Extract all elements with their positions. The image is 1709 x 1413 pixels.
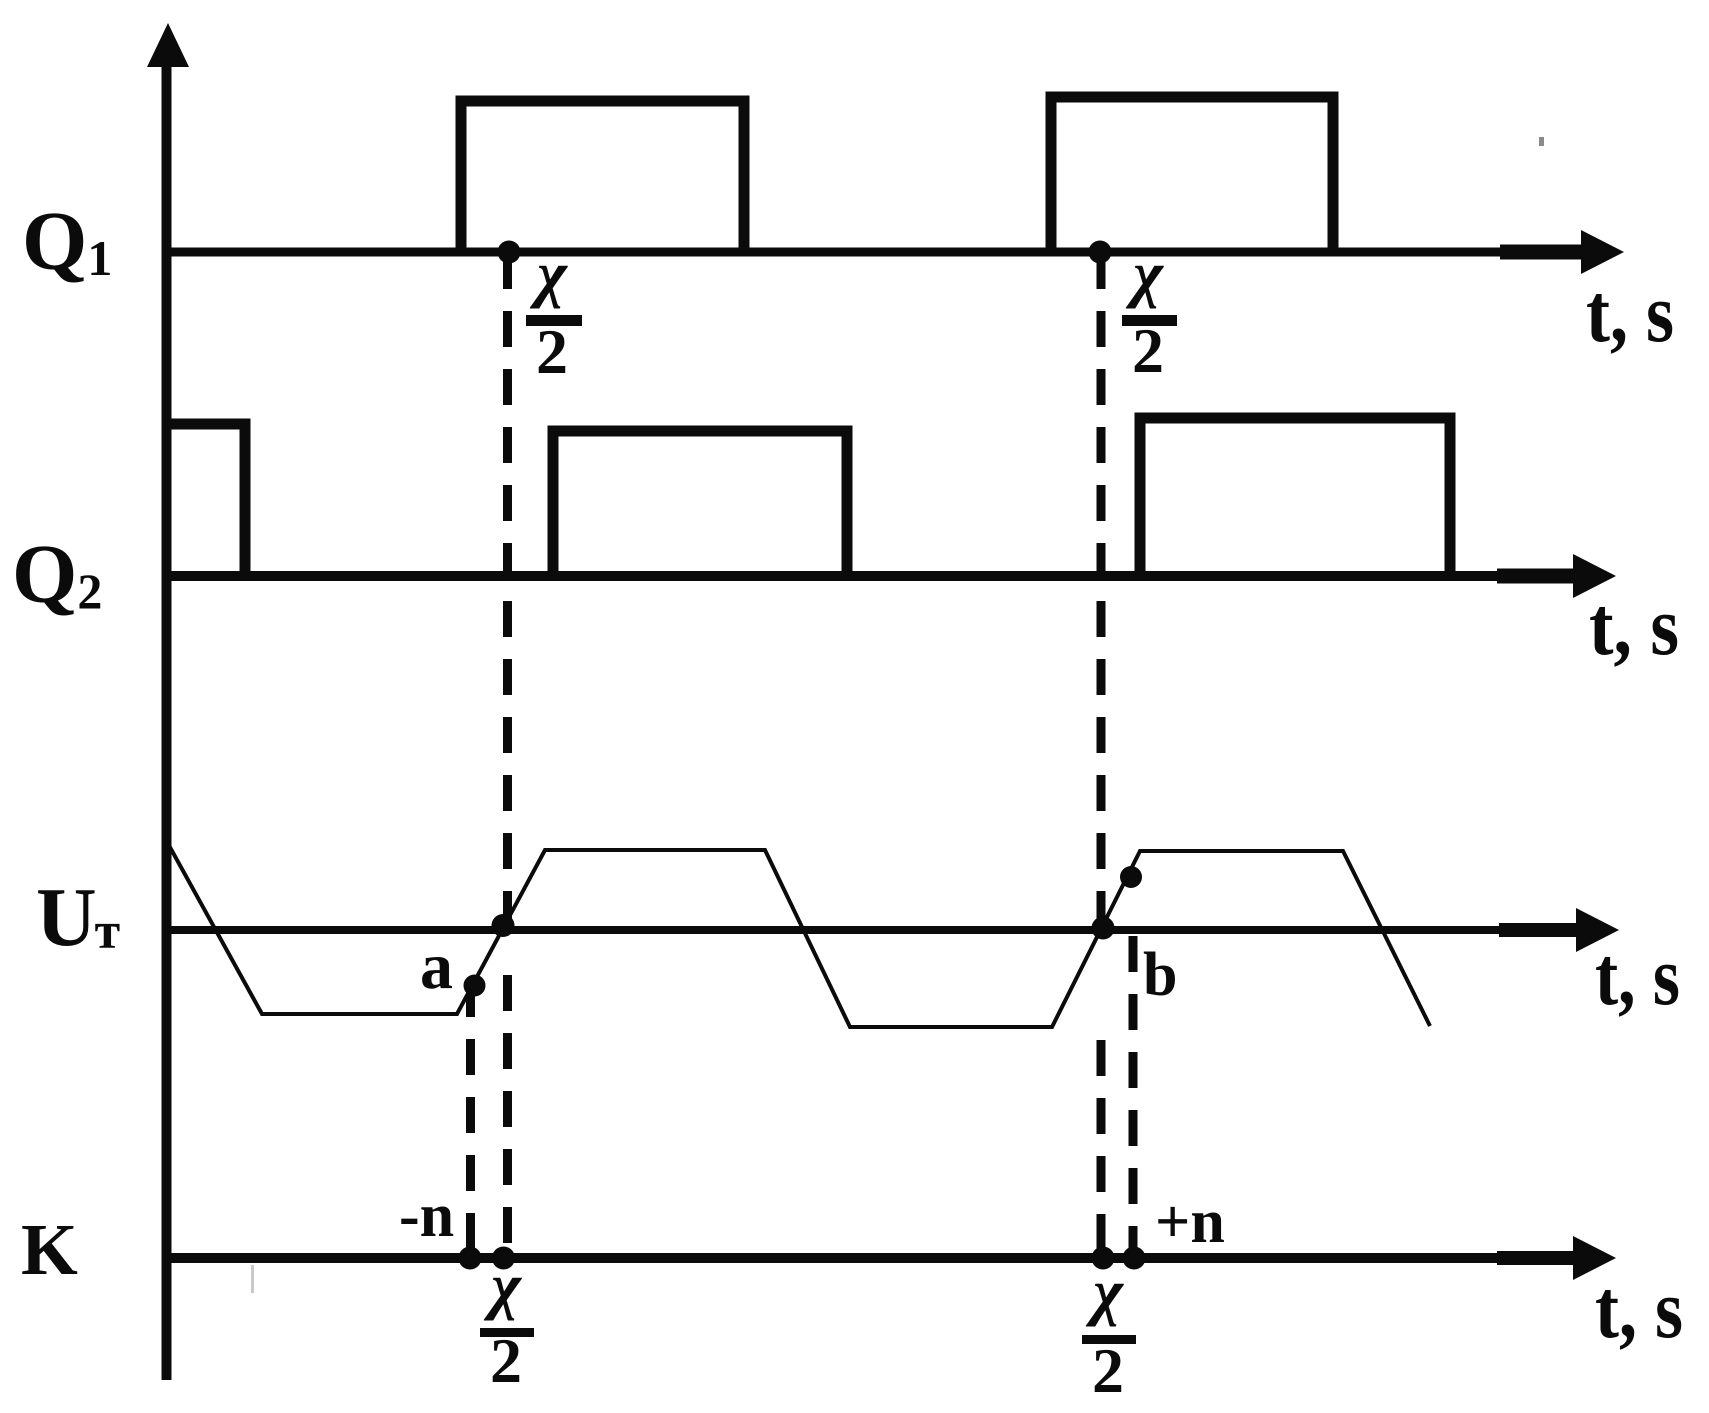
triangular carrier wave U_t	[166, 840, 1430, 1027]
svg-text:2: 2	[1092, 1335, 1124, 1406]
svg-text:2: 2	[1132, 315, 1164, 386]
svg-text:Uт: Uт	[36, 871, 120, 964]
crossing dot on U axis (second)	[1092, 917, 1115, 940]
Q2 time axis thick shaft	[1497, 569, 1575, 584]
faint scan artifact tick below K axis	[251, 1265, 254, 1293]
dot +n on K axis	[1123, 1247, 1146, 1270]
svg-text:2: 2	[490, 1325, 522, 1396]
K time axis	[166, 1253, 1555, 1263]
dashed timing line at chi/2 (left), lower part	[503, 975, 512, 1253]
fraction chi/2 under Q1 first dot	[526, 238, 582, 387]
U time axis arrowhead	[1576, 908, 1619, 952]
dot chi/2 right on K axis	[1092, 1247, 1115, 1270]
Q1 pulse 1	[461, 101, 744, 252]
Q2 pulse 3	[1140, 418, 1450, 576]
node dot at chi/2 on Q1 axis (first)	[498, 241, 521, 264]
Q2 pulse 2	[553, 431, 847, 576]
fraction chi/2 under Q1 second dot	[1122, 238, 1177, 386]
faint scan artifact dot (top right)	[1539, 137, 1544, 146]
svg-text:b: b	[1143, 941, 1177, 1009]
Q1 time axis thick shaft	[1500, 245, 1584, 260]
dashed line below node b (+n)	[1129, 936, 1138, 1253]
svg-text:t, s: t, s	[1595, 1263, 1683, 1356]
vertical axis arrowhead	[147, 23, 189, 67]
K time axis thick shaft	[1497, 1251, 1575, 1265]
Q1 pulse 2	[1051, 97, 1333, 252]
fraction chi/2 under K axis (right)	[1082, 1256, 1136, 1406]
Q2 time axis	[166, 571, 1555, 581]
node a dot on wave	[464, 975, 486, 997]
dashed timing line at chi/2 (right), lower part	[1097, 1040, 1106, 1253]
dashed timing line at chi/2 (right), upper part	[1097, 253, 1106, 930]
Q1 time axis	[166, 248, 1560, 257]
dot chi/2 left on K axis	[492, 1247, 515, 1270]
fraction chi/2 under K axis (left)	[480, 1250, 534, 1396]
Q2 time axis arrowhead	[1573, 554, 1616, 598]
vertical signal axis	[162, 55, 172, 1380]
U time axis thick shaft	[1499, 923, 1578, 937]
svg-text:χ: χ	[1085, 1256, 1124, 1327]
node b dot on wave	[1120, 866, 1142, 888]
svg-text:t, s: t, s	[1589, 580, 1679, 673]
K time axis arrowhead	[1573, 1236, 1616, 1280]
svg-text:Q1: Q1	[22, 195, 112, 288]
svg-text:+n: +n	[1155, 1188, 1225, 1256]
svg-text:t, s: t, s	[1586, 267, 1674, 360]
Q2 pulse 1 (starts on vertical axis)	[162, 424, 245, 576]
svg-text:t, s: t, s	[1595, 930, 1680, 1023]
dashed line below node a (-n)	[466, 981, 475, 1253]
dot -n on K axis	[459, 1247, 482, 1270]
svg-text:-n: -n	[399, 1182, 454, 1250]
svg-text:a: a	[420, 930, 453, 1003]
crossing dot on U axis (first)	[492, 914, 515, 937]
svg-text:Q2: Q2	[12, 528, 102, 621]
svg-text:2: 2	[536, 316, 568, 387]
node dot at chi/2 on Q1 axis (second)	[1089, 241, 1112, 264]
U time axis	[166, 926, 1555, 934]
dashed timing line at chi/2 (left), upper part	[503, 253, 512, 930]
Q1 time axis arrowhead	[1581, 230, 1624, 274]
svg-text:K: K	[21, 1209, 78, 1290]
